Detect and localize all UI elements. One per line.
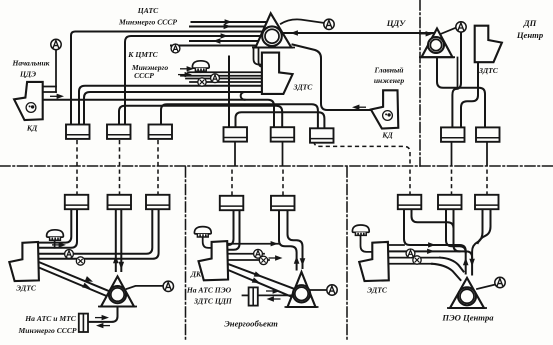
dashed trunk above B10 — [451, 170, 453, 195]
box B11 — [475, 195, 499, 209]
wire connector2 to T3 — [258, 294, 292, 296]
wire T2 to circled A5 — [127, 286, 164, 289]
box B2 — [107, 125, 131, 139]
handset3 middle — [194, 227, 211, 237]
wire handset3 stem into EDTS2b — [203, 236, 212, 248]
wire EDTS3 line r1 — [389, 244, 404, 246]
svg-text:Главный: Главный — [374, 66, 404, 75]
wire L5 — [190, 40, 258, 42]
wire box BM2 right to T3 apex right — [288, 210, 303, 268]
wire box BM2 left to T3 apex left — [279, 210, 297, 269]
wire box B11 right curving left — [478, 209, 491, 243]
wire handset1 stem — [200, 70, 202, 72]
wire box B3 to box B6 — [161, 104, 318, 128]
wire box BM1 left down into EDTS2b corner — [228, 210, 234, 245]
svg-text:ЭДТС: ЭДТС — [16, 284, 37, 293]
handset4 bottom right — [352, 225, 369, 235]
box B4 — [224, 127, 248, 141]
wire diagonal r4 to T4 — [432, 264, 461, 280]
wire drop from circled A1 — [55, 50, 57, 93]
circled X3b middle — [259, 256, 267, 264]
circled A7 of T4 — [495, 277, 505, 287]
circled A3 right of T1 — [324, 19, 334, 29]
wire solid stub below B8 — [486, 141, 488, 165]
arrow down on B2b drop — [119, 262, 125, 270]
arrow right near CMTS text lower — [178, 72, 192, 77]
T5 base ticks — [419, 56, 455, 58]
arrow right on L4 — [214, 33, 228, 38]
T5 inner circle — [430, 39, 441, 50]
box B2b — [108, 195, 132, 209]
block arrow ZDTS2 top center — [262, 53, 293, 94]
exchange triangle T5 top right — [422, 29, 453, 58]
arrow right on EDTS3 line r1 — [422, 242, 436, 247]
connector box1 bottom left — [79, 314, 88, 332]
wire bundle b1 from handset — [188, 71, 262, 73]
connector box2 middle — [249, 287, 258, 305]
box BM2 — [271, 196, 295, 210]
wire bus right from T1 to T5 — [283, 32, 433, 34]
wire EDTS3 line r4 — [389, 263, 432, 265]
wire box B1 right to loop — [84, 92, 245, 125]
dashed line from box B6 to right then down — [314, 141, 410, 165]
wire diagonal d1 to T3 — [228, 264, 294, 289]
wire L4 with corner at x=127 down into box B2 — [125, 36, 260, 125]
wire EDTS2b line m3 — [228, 259, 269, 261]
wire T4 to circled A7 — [477, 285, 495, 289]
wire box B9 right snake joining r2 — [412, 209, 460, 251]
T4 outer circle — [458, 287, 476, 305]
wire box B10 right down into snake — [453, 209, 455, 228]
T3 base ticks — [285, 306, 319, 308]
wire solid stub below B4 — [234, 142, 236, 166]
box B3 — [149, 125, 173, 139]
wire solid stub below B5 — [282, 142, 284, 166]
arrow right on EDTS2b line m3 — [269, 255, 283, 260]
arrow left above KD2 line — [352, 105, 366, 110]
dashed trunk above B11 — [486, 170, 488, 195]
wire hook 2 from T1 base — [259, 48, 263, 67]
arrow up to T3 apex — [294, 256, 300, 264]
arrow right into T5 — [419, 31, 433, 36]
wire diagonal r3 to T4 — [440, 258, 464, 272]
wire box B2b down to T2 apex right — [120, 209, 122, 271]
circled A2 bottom left — [65, 250, 74, 259]
block arrow EDTS3 bottom right — [359, 242, 389, 281]
circled X2 bottom left — [76, 257, 84, 265]
arrow up on B2b drop — [113, 256, 119, 264]
handset1 CMTS — [192, 61, 209, 71]
T4 base ticks — [447, 307, 487, 309]
arrow right on KD1 bus — [50, 94, 64, 99]
block arrow ZDTS4 top right — [475, 26, 502, 63]
wire EDTS1 line l1 to box B1b left — [39, 209, 71, 242]
svg-text:На АТС ПЭО: На АТС ПЭО — [186, 286, 232, 295]
dashed trunk below B2 — [119, 140, 121, 166]
wire box B4 right to box B6 — [236, 112, 325, 128]
T2 inner circle — [111, 288, 124, 301]
arrowhead on middle diagonal 2 — [252, 277, 261, 285]
handset2 bottom left — [47, 230, 64, 240]
svg-text:Минэнерго СССР: Минэнерго СССР — [17, 326, 76, 335]
svg-text:ПЭО Центра: ПЭО Центра — [441, 313, 494, 323]
vertical dash-dot divider left — [185, 167, 187, 341]
dashed trunk above B2b — [119, 170, 121, 195]
circled A6 of T3 — [327, 285, 337, 295]
wire L3 long bus to left corner down to box B1 — [71, 32, 263, 125]
arrow right above connector1 — [95, 315, 109, 320]
svg-text:Энергообъект: Энергообъект — [224, 319, 278, 329]
wire T1 apex to circled A3 — [281, 19, 324, 23]
arrow down to T3 apex — [300, 258, 306, 266]
T1 base ticks — [252, 47, 295, 49]
arrow right on L2 — [217, 24, 231, 29]
arrowhead down-right on D2 — [82, 283, 91, 291]
KD1 inner circle — [26, 103, 36, 113]
svg-text:СССР: СССР — [134, 71, 154, 80]
dispatcher unit KD2 polygon — [371, 90, 398, 128]
dashed trunk above BM1 — [231, 170, 233, 196]
wire bundle b2 — [181, 75, 262, 77]
block arrow EDTS1 bottom left — [9, 242, 39, 281]
box B6 — [310, 128, 334, 142]
box B3b — [146, 195, 170, 209]
exchange triangle T1 top center — [256, 13, 292, 47]
arrow down to T4 apex — [469, 259, 475, 267]
box B10 — [438, 195, 462, 209]
vertical dash-dot divider CDU — [419, 0, 421, 166]
wire T1 right to KD2 of chief engineer — [293, 45, 371, 111]
wire box B11 left curving into apex right vertical — [472, 209, 482, 257]
box B9 — [398, 195, 422, 209]
arrow left on bus right of T1 — [291, 30, 305, 35]
dashed trunk above B9 — [409, 170, 411, 195]
svg-text:Начальник: Начальник — [11, 59, 49, 68]
wire T5 base to box B8 — [437, 58, 485, 128]
box B5 — [271, 127, 295, 141]
arrow right on L1 — [218, 19, 232, 24]
svg-text:ЗДТС: ЗДТС — [478, 66, 499, 75]
svg-text:ЭДТС: ЭДТС — [367, 286, 388, 295]
exchange triangle T3 middle — [288, 272, 316, 307]
wire EDTS1 line l2 to box B1b right — [39, 209, 77, 248]
box BM1 — [220, 196, 244, 210]
arrow right on EDTS1 line l2 — [52, 242, 66, 247]
wire diagonal D1 to triangle T2 — [40, 263, 110, 292]
dashed trunk above B3b — [157, 170, 159, 195]
wire EDTS2b line m2 to circled A3b — [228, 253, 264, 255]
vertical dash-dot divider middle — [346, 167, 348, 341]
wire EDTS3 line r2 to T4 apex right — [389, 251, 472, 274]
dashed trunk below B1 — [76, 140, 78, 166]
arrow right above connector2 — [266, 288, 280, 293]
svg-text:Центр: Центр — [516, 30, 544, 40]
T1 inner circle — [265, 29, 279, 43]
T3 inner circle — [295, 287, 308, 300]
svg-text:инженер: инженер — [374, 76, 405, 85]
arrow up to T4 apex — [463, 258, 469, 266]
circled X4 bottom right — [413, 256, 421, 264]
small circled A in CMTS bundle — [211, 74, 220, 83]
small circled A on line L6 — [171, 44, 180, 53]
circled X in CMTS bundle — [198, 78, 206, 86]
wire T5 base right corner drop — [457, 58, 459, 88]
wire bundle b4 through circled X — [190, 81, 262, 83]
circled A8 bottom right — [406, 249, 415, 258]
horizontal dash-dot section divider — [0, 165, 553, 167]
arrow left on L5 — [213, 38, 227, 43]
svg-text:К ЦМТС: К ЦМТС — [127, 50, 158, 59]
wire box B4 left vertical up — [228, 57, 230, 128]
arrow left below connector1 — [96, 323, 110, 328]
wire box B1 left up long horizontal into ZDTS2 — [79, 86, 262, 125]
circled A5 of T2 — [163, 281, 173, 291]
T2 base ticks — [98, 306, 137, 308]
svg-text:ДК: ДК — [190, 270, 202, 279]
wire box BM1 right curving into EDTS2b edge — [228, 210, 239, 250]
wire bundle b3 through small circled A — [186, 78, 262, 80]
wire L2 top trunk — [190, 26, 265, 28]
wire EDTS2b line m1 — [228, 243, 279, 245]
wire handset2 stem — [54, 240, 56, 248]
wire EDTS1 line l3 to box B3b left — [39, 209, 152, 254]
wire connector2 left stub — [243, 294, 249, 296]
arrow right on EDTS3 line r2 — [421, 249, 435, 254]
wire L6 through circled A — [171, 45, 256, 47]
wire EDTS1 line l4 to box B3b right — [39, 209, 159, 259]
svg-text:Минэнерго СССР: Минэнерго СССР — [118, 18, 177, 27]
wire L1 top trunk — [192, 21, 267, 23]
wire box B2 to box B5 — [119, 106, 282, 128]
svg-text:КД: КД — [26, 124, 38, 133]
svg-text:ЗДТС: ЗДТС — [293, 83, 314, 92]
box B8 — [476, 127, 500, 141]
wire loop from bus up into ZDTS2 and branch down to box B5 — [241, 92, 274, 128]
wire T2 base down and left to connector — [88, 307, 118, 322]
svg-text:ЗДТС ЦДП: ЗДТС ЦДП — [193, 297, 233, 306]
box B7 — [441, 127, 465, 141]
svg-text:ДП: ДП — [523, 18, 537, 28]
wire diagonal D2 to triangle T2 — [40, 268, 107, 296]
wire box B2b down to T2 apex left — [115, 209, 117, 271]
arrow left below connector2 — [267, 296, 281, 301]
wire solid stub below B7 — [451, 141, 453, 165]
wire KD1 stub upper — [43, 86, 56, 88]
wire KD1 stub lower — [43, 91, 56, 93]
T1 outer circle — [262, 26, 282, 46]
wire diagonal d2 to T3 — [228, 270, 291, 297]
arrow right on EDTS2b line m1 — [264, 241, 278, 246]
wire hook from T1 base into ZDTS2 left — [254, 48, 263, 65]
wire ZDTS4 bottom to box B7 right — [461, 63, 478, 128]
T2 outer circle — [109, 286, 126, 303]
circled A4 right of T5 — [456, 22, 466, 32]
exchange triangle T4 bottom right — [450, 278, 484, 308]
circled A3b middle — [254, 249, 263, 258]
svg-text:ЦДУ: ЦДУ — [386, 18, 407, 28]
circled A1 top left — [51, 39, 61, 49]
exchange triangle T2 bottom left — [101, 276, 134, 306]
T5 outer circle — [428, 37, 444, 53]
svg-text:ЦДЭ: ЦДЭ — [19, 70, 36, 79]
KD2 inner circle — [383, 111, 393, 121]
block arrow EDTS2b middle — [199, 241, 229, 280]
dashed trunk below B3 — [157, 140, 159, 166]
wire EDTS3 line r3 — [389, 257, 440, 259]
wire handset4 stem into EDTS3 — [361, 235, 373, 252]
wire box B10 left to apex vertical — [446, 209, 466, 252]
wire T5 apex to circled A4 — [441, 28, 457, 34]
svg-text:ЦАТС: ЦАТС — [137, 6, 159, 15]
svg-text:На АТС и МТС: На АТС и МТС — [24, 314, 76, 323]
wire box B9 left down to T4 apex left — [404, 209, 466, 273]
wire T3 to circled A6 — [309, 289, 327, 291]
arrow right near CMTS text upper — [180, 66, 194, 71]
wire circled A4 drop to box B7 — [452, 32, 461, 127]
wire KD1 long bus y=99.7 — [43, 99, 245, 101]
dashed trunk above B1b — [76, 170, 78, 195]
dispatcher unit KD1 polygon — [14, 82, 43, 120]
T4 inner circle — [460, 289, 474, 303]
box B1b — [65, 195, 89, 209]
svg-text:КД: КД — [381, 131, 393, 140]
arrowhead on middle diagonal 1 — [254, 271, 263, 279]
dashed trunk above BM2 — [282, 170, 284, 196]
box B1 — [66, 125, 90, 139]
arrowhead down-right on D1 — [85, 276, 94, 284]
T3 outer circle — [293, 285, 310, 302]
